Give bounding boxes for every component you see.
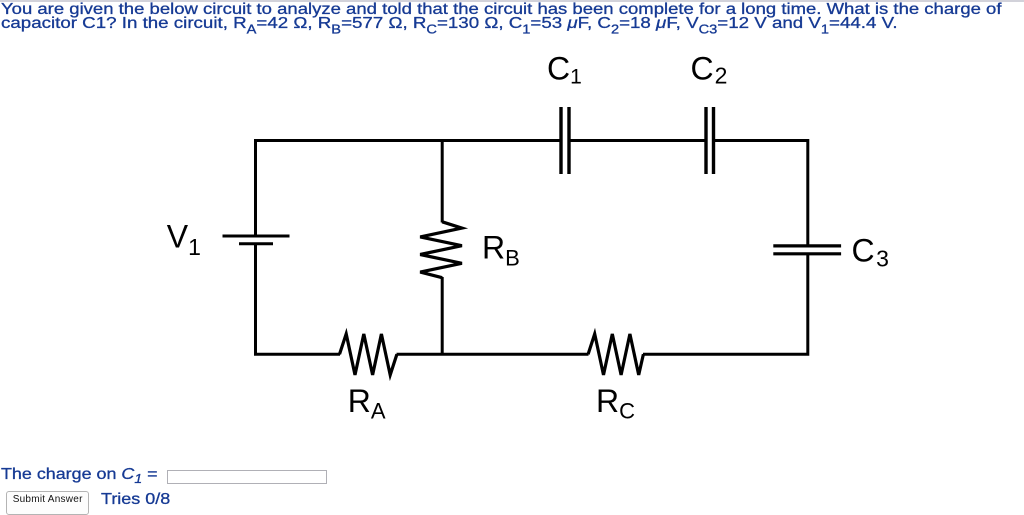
svg-text:RA: RA: [348, 383, 386, 424]
svg-text:RC: RC: [596, 383, 635, 424]
svg-text:RB: RB: [482, 230, 520, 271]
svg-text:C1: C1: [547, 51, 582, 89]
svg-text:C3: C3: [852, 233, 889, 272]
svg-text:V1: V1: [167, 218, 201, 259]
svg-text:C2: C2: [691, 51, 728, 89]
